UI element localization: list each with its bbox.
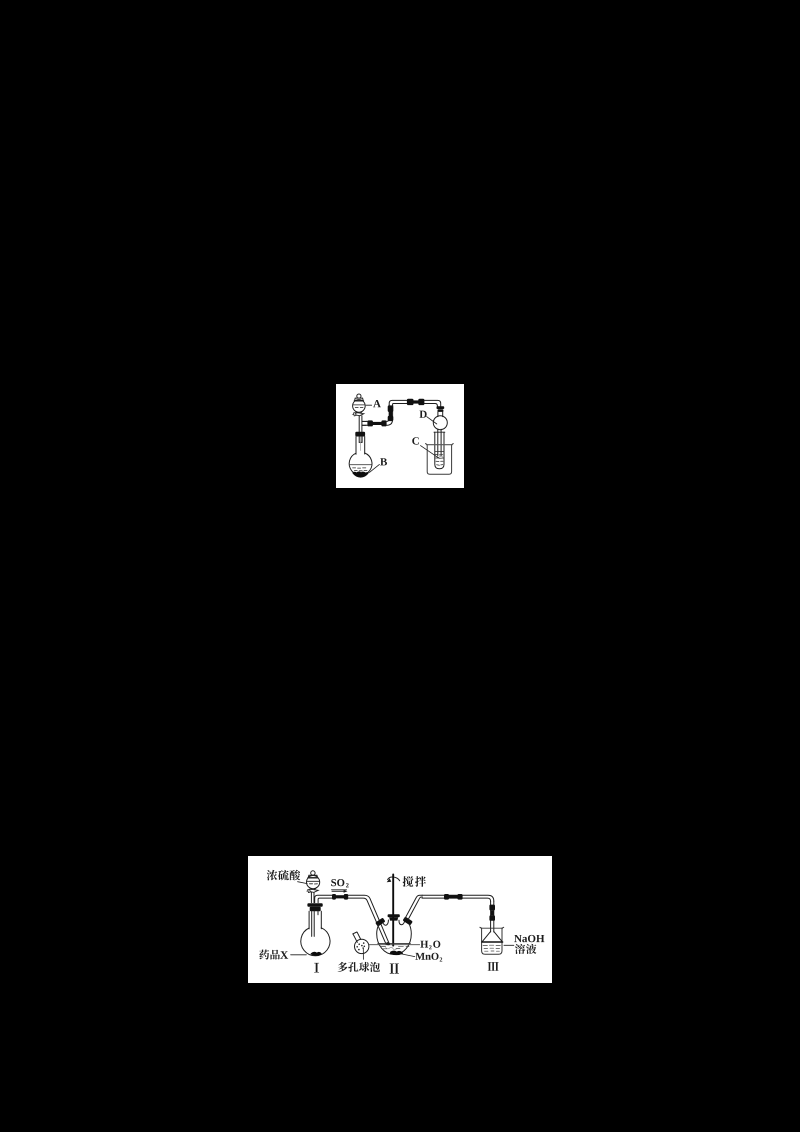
inverted funnel in beaker xyxy=(482,931,502,941)
dropping funnel A bulb xyxy=(353,400,366,413)
flask II right neck ring xyxy=(403,916,413,925)
beaker III xyxy=(480,927,504,954)
funnel stem inside flask neck xyxy=(359,437,362,443)
flask II center flange xyxy=(388,914,400,920)
label SO2 xyxy=(331,879,348,887)
label C callout line xyxy=(421,446,440,459)
funnel stem xyxy=(311,892,314,902)
label D callout line xyxy=(427,417,437,424)
label C xyxy=(412,437,419,444)
funnel stem inside flask I xyxy=(312,911,315,936)
tube elbow up xyxy=(386,405,392,425)
rubber connector (horizontal, lower) xyxy=(367,420,386,426)
rubber connector (vertical) xyxy=(388,405,394,421)
liquid squiggle in C xyxy=(437,456,443,457)
flask I bulb xyxy=(301,928,330,956)
label 多孔球泡 xyxy=(338,962,380,972)
flask I stopper xyxy=(307,903,322,911)
tube II to III horizontal xyxy=(422,895,494,901)
label A callout dash xyxy=(366,404,371,406)
arrow below SO2 xyxy=(332,890,348,893)
H2O callout line through flask xyxy=(369,944,420,946)
flask II body xyxy=(377,924,412,954)
beaker holding C xyxy=(426,444,454,475)
funnel mouth xyxy=(482,941,503,943)
flask B bulb xyxy=(349,453,372,475)
holes in porous ball xyxy=(356,942,365,950)
MnO2 sediment xyxy=(390,951,404,956)
callout line to funnel xyxy=(298,882,308,884)
top tube to right elbow down xyxy=(424,400,441,406)
flask D stopper xyxy=(437,406,445,412)
label NaOH xyxy=(514,935,544,942)
label B callout line xyxy=(369,464,379,472)
label 溶液 xyxy=(515,944,536,954)
label I xyxy=(314,963,319,973)
vertical tube down to beaker III xyxy=(491,901,494,932)
apparatus panel 2 xyxy=(248,856,552,983)
label III xyxy=(488,962,499,971)
stirrer rotation arc xyxy=(387,877,400,882)
test tube C rim xyxy=(434,431,445,433)
liquid in test tube C xyxy=(435,451,444,465)
tube elbow right at top xyxy=(389,400,407,406)
label 药品X xyxy=(259,950,280,960)
flask I neck xyxy=(309,911,321,929)
liquid line and surface in flask II xyxy=(378,942,411,944)
dropping funnel A stopper knob xyxy=(354,394,363,401)
flask II right valley xyxy=(399,920,405,925)
side tube to first connector xyxy=(362,421,368,425)
rubber connector (top horizontal) xyxy=(407,399,425,405)
solid chunks in flask B xyxy=(352,471,369,477)
NaOH liquid dashes xyxy=(483,945,500,951)
label MnO2 xyxy=(415,953,442,962)
faint neck line xyxy=(359,437,361,451)
label D xyxy=(420,411,427,418)
tube tip blob xyxy=(386,942,390,945)
flask II left valley xyxy=(383,920,389,925)
label NaOH callout xyxy=(504,944,514,946)
label B xyxy=(380,458,387,465)
drug X lump in flask I xyxy=(311,952,322,956)
stirring rod xyxy=(392,875,394,946)
rubber connector (vertical) xyxy=(489,905,495,921)
flask II left neck ring xyxy=(375,918,385,927)
liquid surface in flask B xyxy=(350,464,371,466)
label II xyxy=(390,963,399,973)
funnel stem tube xyxy=(359,416,362,432)
label 浓硫酸 xyxy=(267,870,300,881)
dropping funnel bulb xyxy=(307,876,320,889)
bubbles squiggle xyxy=(386,947,397,950)
porous ball xyxy=(355,939,369,953)
apparatus panel 1 xyxy=(336,384,464,488)
flask D bulb xyxy=(433,416,447,430)
flask B neck xyxy=(356,437,365,455)
gas outlet tube elbow from stopper xyxy=(315,895,333,902)
label H2O xyxy=(420,941,440,950)
rubber connector II-III xyxy=(444,894,463,900)
flask D neck xyxy=(438,412,443,417)
dropping funnel knob xyxy=(308,871,318,878)
rubber connector I-II xyxy=(332,894,348,900)
porous ball label line xyxy=(362,948,364,959)
callout line drug X xyxy=(291,954,307,956)
label A xyxy=(373,400,381,407)
label MnO2 callout xyxy=(400,954,415,957)
delivery tube into test tube C xyxy=(438,429,441,456)
beaker III rim xyxy=(481,927,503,929)
outlet stub below stopper xyxy=(317,911,319,915)
underline below SO2 xyxy=(332,889,347,891)
liquid dashes flask II xyxy=(381,946,409,949)
dropping funnel A cone and stopcock xyxy=(353,412,364,416)
dropping funnel cone and stopcock xyxy=(307,888,318,893)
tube from flask II right neck up xyxy=(405,895,423,920)
liquid dashes in flask B xyxy=(353,468,367,471)
tube to flask II left neck xyxy=(348,895,389,944)
test tube C xyxy=(435,432,444,468)
porous ball neck xyxy=(353,932,361,942)
beaker rim line xyxy=(427,444,453,446)
label 搅拌 xyxy=(403,876,426,887)
flask B stopper xyxy=(355,432,365,437)
